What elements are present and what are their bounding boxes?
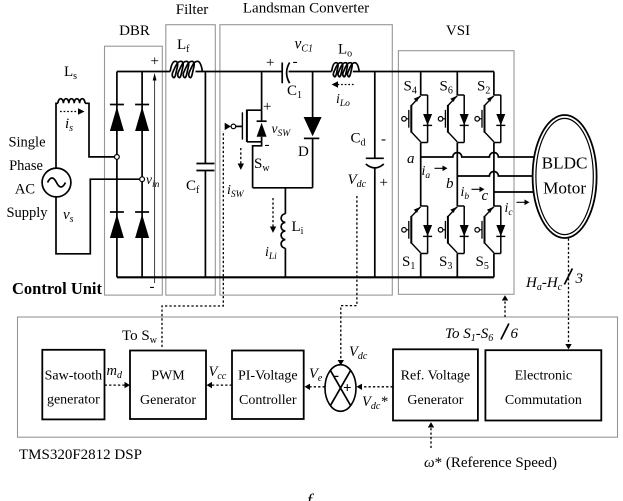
svg-text:Electronic: Electronic: [515, 369, 573, 384]
diode D: [312, 72, 314, 118]
transistor S1: [402, 206, 432, 254]
node vin: [140, 177, 145, 182]
svg-text:-: -: [293, 54, 298, 70]
inductor Lo: [332, 63, 360, 77]
wire Ls to DBR left node: [85, 103, 115, 157]
Ref. Voltage Generator block: [393, 349, 478, 420]
transistor S6: [438, 95, 468, 143]
svg-text:3: 3: [575, 271, 584, 287]
wire bottom rail: [117, 276, 494, 278]
wire leg1 mid: [420, 143, 422, 207]
body diode of Sw: [261, 110, 263, 142]
capacitor Cf: [196, 72, 214, 278]
svg-text:Generator: Generator: [140, 393, 196, 408]
wire VSI leg3 upper: [493, 72, 495, 96]
wire VSI leg1 upper: [420, 72, 422, 96]
svg-text:AC: AC: [15, 182, 35, 198]
signal Vcc arrow: [212, 384, 232, 386]
svg-text:c: c: [482, 188, 489, 204]
svg-text:-: -: [334, 368, 339, 384]
wire Li to bottom rail: [284, 248, 286, 277]
svg-text:D: D: [298, 144, 309, 160]
DBR left leg wire: [116, 72, 118, 278]
svg-text:b: b: [446, 176, 454, 192]
wire C1 to Lo: [289, 71, 332, 73]
svg-text:Commutation: Commutation: [505, 393, 582, 408]
current arrow is: [60, 111, 78, 113]
svg-text:Ref. Voltage: Ref. Voltage: [401, 369, 470, 384]
svg-text:Control Unit: Control Unit: [12, 279, 102, 298]
VSI block outline box: [398, 51, 514, 295]
current arrow iSW: [240, 148, 242, 164]
svg-text:Ha-Hc: Ha-Hc: [525, 275, 563, 293]
slash 3: [564, 269, 572, 285]
signal Ve arrow: [310, 386, 325, 388]
svg-text:-: -: [150, 279, 155, 295]
svg-text:Single: Single: [8, 135, 45, 151]
transistor S3: [438, 206, 468, 254]
wire phase b to motor: [457, 172, 536, 177]
wire phase c to motor: [494, 191, 537, 193]
wire Sw drain to rail: [261, 72, 263, 111]
DBR block outline box: [105, 46, 163, 295]
signal Ha-Hc line: [568, 239, 570, 345]
capacitor C1: [282, 63, 289, 84]
svg-text:-: -: [381, 132, 386, 148]
wire top rail Lf to C1: [196, 71, 283, 73]
svg-text:+: +: [266, 55, 274, 71]
signal omega arrow: [430, 427, 432, 448]
transistor S5: [475, 206, 505, 254]
wire leg2 mid: [456, 143, 458, 207]
summing junction: [325, 365, 356, 412]
svg-text:TMS320F2812 DSP: TMS320F2812 DSP: [19, 447, 142, 463]
svg-text:+: +: [380, 175, 388, 191]
svg-text:To S1-S6: To S1-S6: [445, 326, 493, 344]
wire AC top to Ls: [56, 103, 58, 168]
wire leg3 lower to rail: [493, 254, 495, 278]
svg-text:DBR: DBR: [119, 23, 150, 39]
gate terminal circle Sw: [231, 124, 236, 129]
svg-text:+: +: [151, 54, 159, 70]
transistor Sw (MOSFET): [247, 110, 262, 142]
svg-text:Saw-tooth: Saw-tooth: [45, 369, 103, 384]
AC source Vs: [42, 168, 71, 197]
svg-text:Filter: Filter: [176, 2, 209, 18]
wire top rail DBR to Lf: [117, 71, 170, 73]
PWM Generator block: [130, 351, 206, 420]
svg-text:6: 6: [511, 326, 519, 342]
Saw-tooth generator block: [42, 350, 104, 420]
wire phase a to motor: [421, 153, 536, 158]
wire leg3 mid: [493, 143, 495, 207]
wire Lo to VSI rail: [353, 71, 494, 73]
svg-text:Motor: Motor: [543, 179, 586, 198]
BLDC motor: [533, 115, 597, 238]
svg-text:+: +: [343, 381, 352, 397]
current arrow iLi: [272, 198, 274, 227]
svg-text:Supply: Supply: [6, 205, 48, 221]
diode D4 (DBR lower-right): [135, 211, 149, 213]
capacitor Cd: [366, 72, 384, 278]
current arrow iLo: [338, 84, 355, 86]
gate arrow into Sw: [225, 123, 231, 130]
svg-text:Phase: Phase: [9, 158, 43, 174]
signal Vdc sense line: [341, 196, 357, 361]
inductor Li: [281, 214, 285, 248]
signal Vdc* arrow: [362, 386, 393, 388]
Control Unit outline box: [18, 317, 618, 437]
transistor S4: [402, 95, 432, 143]
inductor Lf: [170, 61, 202, 77]
signal To Sw path: [162, 131, 223, 347]
wire Sw/D bottom node: [253, 187, 313, 189]
node left AC input: [115, 155, 120, 160]
Electronic Commutation block: [485, 350, 601, 420]
wire leg1 lower to rail: [420, 254, 422, 278]
signal To S1-S6 arrow: [504, 300, 506, 317]
svg-text:PWM: PWM: [151, 369, 185, 384]
DBR right leg wire: [141, 72, 143, 278]
svg-text:Generator: Generator: [407, 393, 463, 408]
signal md arrow: [105, 384, 125, 386]
PI-Voltage Controller block: [232, 351, 304, 420]
svg-text:a: a: [407, 151, 415, 167]
inductor Ls: [58, 99, 85, 104]
transistor S2: [475, 95, 505, 143]
wire to Li: [284, 188, 286, 214]
wire Sw source down: [253, 142, 262, 188]
Filter block outline box: [166, 25, 216, 295]
slash 6: [501, 324, 509, 340]
svg-text:BLDC: BLDC: [542, 154, 588, 173]
svg-text:Landsman Converter: Landsman Converter: [243, 1, 369, 17]
diode D2 (DBR upper-right): [135, 104, 149, 106]
svg-text:Controller: Controller: [239, 393, 297, 408]
svg-text:PI-Voltage: PI-Voltage: [238, 369, 298, 384]
diode D3 (DBR lower-left): [110, 211, 124, 213]
diode D1 (DBR upper-left): [110, 104, 124, 106]
vin measurement arrow: [154, 80, 156, 283]
wire AC bottom loop to vin node: [56, 179, 140, 254]
Landsman Converter block outline box: [220, 25, 392, 295]
svg-text:ω* (Reference Speed): ω* (Reference Speed): [424, 455, 557, 471]
svg-text:-: -: [265, 137, 270, 153]
wire VSI leg2 upper: [456, 72, 458, 96]
svg-text:+: +: [263, 99, 271, 115]
svg-text:generator: generator: [47, 393, 100, 408]
svg-text:VSI: VSI: [446, 23, 470, 39]
wire leg2 lower to rail: [456, 254, 458, 278]
